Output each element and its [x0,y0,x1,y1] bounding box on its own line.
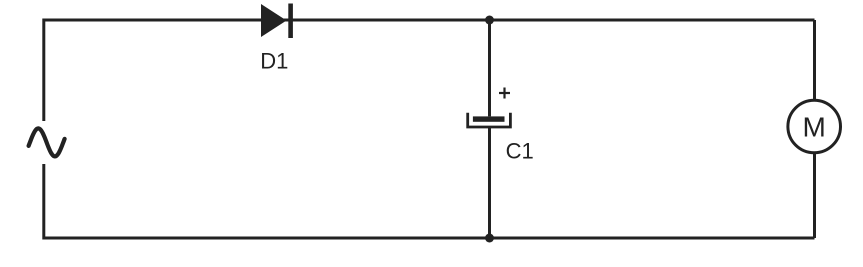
diode D1 [261,4,293,39]
node A top junction [485,16,494,25]
wire right branch upper segment [813,20,816,100]
wire middle branch upper segment [488,20,491,116]
ac source [29,128,65,156]
svg-text:M: M [803,112,826,143]
node B bottom junction [485,234,494,243]
wire middle branch lower segment [488,128,491,238]
wire bottom rail from left corner to right corner [44,164,815,238]
wire top rail from left corner to right corner [44,20,815,121]
motor M [788,100,841,153]
svg-text:D1: D1 [260,49,288,74]
capacitor C1 [468,113,511,127]
svg-text:C1: C1 [506,139,534,164]
wire right branch lower segment [813,153,816,238]
polarity plus of C1 [499,88,510,99]
